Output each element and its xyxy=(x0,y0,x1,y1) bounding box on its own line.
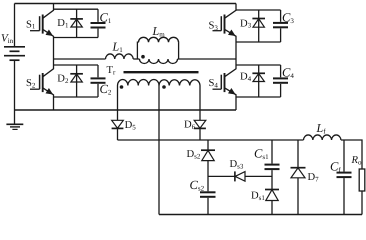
wire S4 cell top rail xyxy=(236,64,281,66)
diode D2 xyxy=(70,65,83,97)
polarity dot primary xyxy=(141,55,145,59)
svg-text:Ro: Ro xyxy=(351,155,362,166)
capacitor Cs1 xyxy=(265,140,280,189)
transformer Tr secondary winding 2 xyxy=(159,80,200,86)
wire output bottom rail xyxy=(159,214,362,216)
capacitor C2 xyxy=(91,65,106,97)
wire secondary right terminal xyxy=(199,86,201,121)
svg-text:C2: C2 xyxy=(100,82,112,96)
diode Ds1 xyxy=(265,190,279,215)
wire S4 cell bottom rail xyxy=(236,96,281,98)
IGBT S1 xyxy=(30,4,54,60)
wire rectifier rail xyxy=(118,139,304,141)
capacitor C3 xyxy=(273,10,288,42)
svg-text:Lf: Lf xyxy=(316,121,327,135)
svg-text:C4: C4 xyxy=(282,65,294,79)
wire secondary left terminal xyxy=(117,86,119,121)
inductor Lf xyxy=(304,135,341,140)
diode Ds2 xyxy=(201,140,215,191)
svg-text:Cs1: Cs1 xyxy=(254,147,269,161)
transformer Tr primary winding xyxy=(140,59,178,64)
svg-text:Cf: Cf xyxy=(330,160,341,174)
wire center tap xyxy=(158,86,160,215)
svg-text:D2: D2 xyxy=(57,74,69,85)
svg-text:Vin: Vin xyxy=(1,33,14,45)
capacitor C1 xyxy=(91,9,106,37)
svg-text:S1: S1 xyxy=(26,19,36,30)
svg-text:Ds1: Ds1 xyxy=(251,191,265,202)
wire S2 cell top rail xyxy=(54,64,99,66)
svg-text:S2: S2 xyxy=(26,78,36,89)
wire middle node to L1 xyxy=(54,58,106,60)
svg-text:S3: S3 xyxy=(209,21,219,32)
wire S3 cell top rail xyxy=(236,9,281,11)
wire Lf to output corner xyxy=(341,140,362,169)
svg-text:D6: D6 xyxy=(184,120,196,131)
wire S1 cell top rail xyxy=(54,8,99,10)
diode D3 xyxy=(252,10,265,42)
ground xyxy=(6,110,23,129)
svg-text:L1: L1 xyxy=(112,39,124,53)
svg-text:D4: D4 xyxy=(240,72,252,83)
svg-text:Lm: Lm xyxy=(152,24,166,38)
diode D4 xyxy=(252,65,265,97)
inductor L1 xyxy=(106,54,134,59)
polarity dot secondary left xyxy=(120,85,124,89)
diode Ds3 xyxy=(208,171,272,181)
capacitor Cf xyxy=(337,140,352,215)
wire S1 cell bottom rail xyxy=(54,37,99,39)
svg-text:D7: D7 xyxy=(308,172,320,183)
wire S2 cell bottom rail xyxy=(54,96,99,98)
svg-text:Ds3: Ds3 xyxy=(230,159,244,170)
wire top rail xyxy=(15,3,237,5)
svg-text:Ds2: Ds2 xyxy=(187,149,201,160)
svg-text:D5: D5 xyxy=(125,120,137,131)
polarity dot secondary right xyxy=(162,85,166,89)
svg-text:C3: C3 xyxy=(282,11,294,25)
diode D7 xyxy=(291,140,306,215)
svg-text:Tr: Tr xyxy=(107,65,116,76)
svg-text:D3: D3 xyxy=(240,18,252,29)
capacitor Cs2 xyxy=(200,192,216,214)
svg-text:D1: D1 xyxy=(57,18,69,29)
IGBT S3 xyxy=(213,4,237,60)
wire bottom rail xyxy=(15,109,237,111)
diode D1 xyxy=(70,9,83,37)
IGBT S2 xyxy=(30,59,54,110)
svg-text:C1: C1 xyxy=(100,11,112,25)
wire L1 to transformer xyxy=(133,58,139,60)
diode D5 xyxy=(112,120,124,140)
wire S3 cell bottom rail xyxy=(236,41,281,43)
transformer Tr secondary winding 1 xyxy=(118,79,160,85)
diode D6 xyxy=(194,120,206,140)
voltage source Vin xyxy=(4,4,25,111)
capacitor C4 xyxy=(273,65,288,97)
IGBT S4 xyxy=(213,59,237,110)
transformer core xyxy=(124,71,199,73)
inductor Lm xyxy=(137,37,178,59)
svg-text:S4: S4 xyxy=(209,78,219,89)
svg-text:Cs2: Cs2 xyxy=(190,178,205,192)
wire primary to right leg xyxy=(178,58,237,60)
resistor Ro xyxy=(359,169,365,215)
